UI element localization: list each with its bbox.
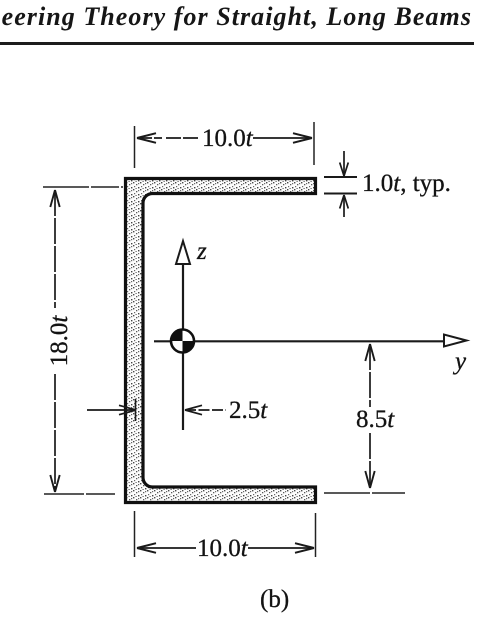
web centerline arrow (points right at web)	[87, 405, 136, 414]
centroid symbol: filled top-left quadrant	[171, 330, 183, 342]
top dimension 10.0t : left extension line	[134, 126, 136, 168]
svg-text:1.0t, typ.: 1.0t, typ.	[362, 170, 451, 197]
svg-text:2.5t: 2.5t	[229, 397, 268, 424]
svg-text:z: z	[196, 238, 207, 265]
dimension 2.5t : arrow pointing left to z axis	[185, 405, 226, 414]
svg-text:10.0t: 10.0t	[197, 535, 249, 562]
left dimension 18.0t : bottom extension line	[44, 493, 115, 495]
centroid symbol: circle	[171, 330, 194, 353]
web centerline tick	[135, 399, 137, 421]
horizontal rule under running head	[0, 42, 474, 45]
top dimension 10.0t : dimension line left part with left arrow	[137, 133, 199, 143]
y axis line	[154, 340, 444, 342]
svg-text:18.0t: 18.0t	[46, 315, 73, 367]
flange thickness 1.0t : upper arrow pointing down	[340, 151, 349, 176]
svg-text:(b): (b)	[260, 586, 289, 613]
z axis line	[182, 264, 184, 430]
top dimension 10.0t : dimension line right part with right arrow	[253, 133, 312, 143]
flange thickness 1.0t : lower arrow pointing up	[340, 195, 349, 217]
z axis open arrowhead	[176, 241, 190, 264]
channel section (C-shape, stippled fill)	[126, 179, 316, 503]
flange thickness 1.0t : lower extension line	[324, 193, 357, 195]
svg-text:10.0t: 10.0t	[202, 125, 254, 152]
dimension 8.5t : vertical line with outward arrows	[365, 344, 374, 488]
left dimension 18.0t : vertical dimension line with arrows	[50, 190, 59, 492]
bottom dimension 10.0t : dimension line with arrows	[137, 543, 314, 553]
svg-text:8.5t: 8.5t	[356, 406, 395, 433]
dimension 8.5t : bottom extension line	[324, 492, 405, 494]
bottom dimension 10.0t : left extension line	[134, 511, 136, 557]
flange thickness 1.0t : upper extension line	[324, 176, 357, 178]
running head text	[2, 2, 472, 32]
y axis open arrowhead	[444, 335, 467, 347]
top dimension 10.0t : right extension line	[313, 122, 315, 165]
left dimension 18.0t : top extension line	[43, 186, 123, 188]
svg-text:y: y	[452, 348, 467, 375]
centroid symbol: filled bottom-right quadrant	[183, 341, 195, 353]
bottom dimension 10.0t : right extension line	[315, 513, 317, 557]
